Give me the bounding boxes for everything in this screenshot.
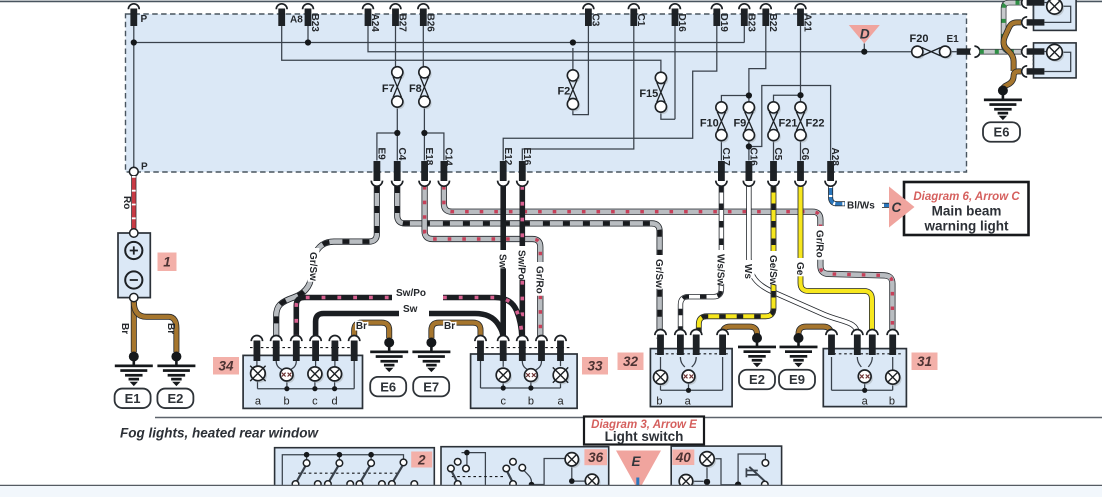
svg-text:c: c xyxy=(500,396,506,408)
battery component 1 xyxy=(118,229,150,302)
svg-text:C5: C5 xyxy=(772,148,783,161)
terminal of 33 at x=522.3 xyxy=(517,336,528,362)
junction 31a on bus xyxy=(862,388,867,393)
ground dot E2 right xyxy=(752,333,762,343)
arrow C triangle xyxy=(889,187,915,228)
wire: D19 to E12 xyxy=(503,26,717,161)
svg-text:B26: B26 xyxy=(424,14,435,33)
svg-text:A8: A8 xyxy=(290,15,303,26)
junction rail A at P xyxy=(131,39,137,45)
wire: second B23 drop to rail A xyxy=(743,26,745,43)
junction 34d on bus xyxy=(332,386,337,391)
svg-text:F9: F9 xyxy=(733,117,746,129)
wire: B27 to fuse F7 xyxy=(395,26,397,67)
wire: F10 output to C17 xyxy=(720,141,722,161)
junction 32a on bus xyxy=(686,388,691,393)
blue internal-connection box xyxy=(126,14,967,172)
svg-text:Br: Br xyxy=(444,321,455,332)
wire: A21 to fuse F22 xyxy=(800,26,802,102)
bulb 33c xyxy=(496,368,512,384)
svg-text:E2: E2 xyxy=(749,372,765,387)
fuse F8 xyxy=(409,67,432,109)
fuse F2 xyxy=(557,70,580,112)
terminal P xyxy=(128,4,139,26)
svg-text:Br: Br xyxy=(119,323,130,334)
wire: F9 output to C16 xyxy=(748,141,750,161)
ground dot E9 right xyxy=(794,333,804,343)
bulb 34d xyxy=(328,367,344,383)
ground dot E1 xyxy=(129,352,139,362)
label Gr/Ro (E18 wire) xyxy=(534,262,546,296)
bulb 33a (headlight) xyxy=(553,367,570,384)
svg-text:Diagram 6, Arrow C: Diagram 6, Arrow C xyxy=(913,191,1020,203)
label Ws (C16 wire) xyxy=(743,260,755,278)
svg-text:F20: F20 xyxy=(910,33,929,45)
junction dots in relay unit 40 xyxy=(704,479,710,485)
terminal E12 xyxy=(498,148,513,187)
bulb lower side light xyxy=(1047,44,1064,62)
label Ws/Sw (C17 wire) xyxy=(715,250,727,284)
section separator line xyxy=(155,417,1102,419)
wire: F9 output bracket to A28 xyxy=(749,86,831,161)
junction dots on feed line of switch unit 2 xyxy=(304,452,310,458)
svg-text:E9: E9 xyxy=(789,372,805,387)
relay contacts in 40 xyxy=(762,460,769,467)
wire: F22 output to C6 xyxy=(800,141,802,161)
svg-text:b: b xyxy=(889,396,895,408)
svg-text:F22: F22 xyxy=(806,117,825,129)
svg-text:D16: D16 xyxy=(676,14,687,33)
junction 34b on bus xyxy=(284,386,289,391)
bulb in 36 (lower) xyxy=(585,474,600,489)
svg-text:C17: C17 xyxy=(720,148,731,167)
svg-text:a: a xyxy=(862,396,869,408)
svg-text:Br: Br xyxy=(165,323,176,334)
label Gr/Sw (C4 wire) xyxy=(654,255,666,289)
terminal C1 xyxy=(628,4,645,27)
terminal of upper side light (bottom) xyxy=(1022,17,1045,28)
svg-text:a: a xyxy=(557,396,564,408)
relay unit 40 xyxy=(671,446,781,488)
terminal of 33 at x=541.5 xyxy=(536,336,547,362)
terminal of 32 at x=680.4 xyxy=(675,330,686,356)
terminal of 33 at x=480.5 xyxy=(475,336,486,362)
svg-text:C: C xyxy=(892,200,902,215)
bulb in 40 (lower) xyxy=(679,475,694,491)
wire Gr/Gn: branch to upper side light xyxy=(1004,3,1021,51)
wire: terminal P down to node P xyxy=(133,26,135,167)
junction rail A at B23 xyxy=(305,39,311,45)
wire Sw: branch to headlight 34 terminal 4 (left of label) xyxy=(316,314,399,339)
ground label E6 top right xyxy=(983,122,1020,142)
svg-text:B27: B27 xyxy=(397,14,408,33)
svg-text:33: 33 xyxy=(587,359,603,374)
svg-text:E12: E12 xyxy=(502,148,513,166)
terminal of 32 at x=722.6 xyxy=(717,330,728,356)
fuse F10 xyxy=(700,102,729,143)
wire: F9 feed branch to fuse F10 xyxy=(721,96,749,102)
bulb 31b xyxy=(886,370,902,386)
junction rail B at triangle D xyxy=(861,49,867,55)
svg-text:E2: E2 xyxy=(167,391,183,406)
label 31 xyxy=(912,353,938,371)
ground symbol E1 xyxy=(115,356,153,387)
terminal of 33 at x=503.2 xyxy=(498,336,509,362)
svg-text:F21: F21 xyxy=(779,117,798,129)
terminal C17 xyxy=(716,148,731,187)
terminal D16 xyxy=(670,4,687,32)
terminal A24 xyxy=(363,4,380,32)
terminal A28 xyxy=(825,148,840,187)
svg-text:E: E xyxy=(631,454,641,469)
label 40 xyxy=(672,450,694,466)
ground dot E2 left xyxy=(171,352,181,362)
terminal C3 xyxy=(583,4,600,27)
svg-text:Ge: Ge xyxy=(794,262,805,276)
wire Ws/Sw: C17 to rear light 32 terminal 2 xyxy=(681,186,722,333)
wire Br: headlight 34 to ground E6 xyxy=(354,323,389,339)
svg-text:Ws/Sw: Ws/Sw xyxy=(715,254,726,286)
svg-text:E7: E7 xyxy=(423,379,439,394)
wire: C1 to E16 xyxy=(522,26,634,161)
terminal of 32 at x=696.2 xyxy=(691,330,702,356)
label Gr/Ro (C14 wire) xyxy=(814,226,826,260)
svg-text:Sw: Sw xyxy=(403,304,418,315)
label Sw (E12 wire) xyxy=(497,250,509,268)
svg-text:Gr/Ro: Gr/Ro xyxy=(814,230,825,258)
svg-text:D: D xyxy=(860,27,870,42)
wire Br: upper side light to ground xyxy=(1004,22,1021,71)
terminal A8 xyxy=(276,4,287,26)
terminal E18 xyxy=(419,148,434,187)
svg-text:Sw/Po: Sw/Po xyxy=(516,250,527,280)
terminal C14 xyxy=(438,148,453,187)
wire Br: lower side light to ground xyxy=(1003,71,1021,90)
wire: B22 to fuse F9 feed xyxy=(749,26,766,102)
terminal E1 bar xyxy=(957,46,980,57)
bulb in 40 (upper) xyxy=(700,452,716,468)
bulb upper side light xyxy=(1047,0,1064,16)
ground label E7 xyxy=(413,377,449,397)
ground dot E6 xyxy=(384,338,394,348)
label Ge (C6 wire) xyxy=(794,258,806,276)
terminal B26 xyxy=(418,4,435,32)
svg-text:B22: B22 xyxy=(767,14,778,33)
svg-text:a: a xyxy=(255,396,262,408)
svg-text:A24: A24 xyxy=(369,14,380,33)
fuse F15 xyxy=(639,72,668,114)
bulb 34a (headlight) xyxy=(250,366,267,383)
wire Gr/Ro: C14 to rear light 31 terminal 4 xyxy=(444,186,893,336)
junction F7 output xyxy=(394,130,400,136)
svg-text:Sw: Sw xyxy=(497,254,508,269)
svg-text:Bl/Ws: Bl/Ws xyxy=(847,201,875,212)
svg-text:F10: F10 xyxy=(700,117,719,129)
wire Ge/Sw: C5 to rear light 32 terminal 3 xyxy=(699,186,774,333)
terminal of lower side light (top) xyxy=(1022,46,1045,57)
svg-text:E9: E9 xyxy=(376,148,387,161)
label Sw/Po (E16 wire) xyxy=(516,246,528,280)
junction F8 output xyxy=(421,130,427,136)
wire Br: battery to ground E2 xyxy=(134,302,177,352)
bulb 33b (twin filament) xyxy=(525,369,540,384)
svg-text:31: 31 xyxy=(917,354,932,369)
terminal of 31 at x=857.3 xyxy=(852,330,863,356)
terminal of 34 at x=354.2 xyxy=(349,336,360,362)
bulb in 36 (upper) xyxy=(565,453,580,468)
terminal of 31 at x=892.7 xyxy=(887,330,898,356)
terminal B27 xyxy=(390,4,407,32)
node P xyxy=(129,167,138,176)
wire: F20 to terminal E1 xyxy=(951,51,957,53)
wire Gr/Sw: E9 to headlight 34 terminal 2 xyxy=(276,186,377,339)
terminal of 31 at x=831.5 xyxy=(826,330,837,356)
svg-text:Sw/Po: Sw/Po xyxy=(396,288,426,299)
rear light unit 31 xyxy=(823,349,906,407)
switch unit 36 xyxy=(441,447,609,488)
junction F9 feed xyxy=(746,92,752,98)
svg-text:B23: B23 xyxy=(309,14,320,33)
wire Br: ground E9 to rear light 31 xyxy=(799,327,831,338)
svg-text:a: a xyxy=(685,396,692,408)
wire Sw/Po: branch right of label into terminal 3 xyxy=(443,298,522,339)
terminal of 32 at x=660.5 xyxy=(655,330,666,356)
terminal A21 xyxy=(795,4,812,32)
ground symbol E2 right xyxy=(738,337,776,368)
wire: F21 output to C5 xyxy=(773,141,775,161)
side light lamp unit (top right, lower) xyxy=(1033,43,1076,78)
bulb 34c xyxy=(308,367,324,383)
svg-text:C6: C6 xyxy=(799,148,810,161)
terminal C6 xyxy=(795,148,810,187)
wire Gr/Ro: E18 to headlight 33 terminal 4 xyxy=(425,186,541,339)
label 32 xyxy=(618,353,644,371)
wire: B26 to fuse F8 xyxy=(422,26,424,67)
svg-text:E6: E6 xyxy=(994,125,1010,140)
wire Ge: C6 to rear light 31 terminal 3 xyxy=(801,186,872,333)
wire Sw/Po: E16 down to headlight 33 terminal 3 xyxy=(519,186,525,339)
svg-text:d: d xyxy=(332,396,338,408)
label Ge/Sw (C5 wire) xyxy=(767,251,779,285)
svg-text:A28: A28 xyxy=(829,148,840,167)
wire Sw: branch right of label into terminal 2 xyxy=(429,314,503,339)
headlight unit 34 xyxy=(243,355,362,408)
svg-text:E1: E1 xyxy=(947,34,960,45)
svg-text:E16: E16 xyxy=(521,148,532,166)
headlight unit 33 xyxy=(471,354,577,408)
terminal of lower side light (bottom) xyxy=(1022,66,1045,77)
svg-text:B23: B23 xyxy=(745,14,756,33)
bottom frame xyxy=(0,486,1102,497)
ground symbol E9 right xyxy=(780,337,818,368)
bulb 32a (twin filament) xyxy=(682,370,697,385)
svg-text:Gr/Sw: Gr/Sw xyxy=(307,252,318,281)
junction dots in switch unit 36 xyxy=(464,450,470,456)
svg-text:c: c xyxy=(312,396,318,408)
side light lamp unit (top right, upper) xyxy=(1033,0,1076,30)
svg-text:b: b xyxy=(656,396,662,408)
wire Ws: C16 to rear light 31 terminal 2 xyxy=(749,186,857,334)
wire: A8 rail to fuse F15 xyxy=(282,26,661,72)
terminal C5 xyxy=(768,148,783,187)
wire Sw: E12 down to headlight 33 terminal 2 xyxy=(500,186,506,339)
junction F9 output xyxy=(746,143,752,149)
svg-text:F2: F2 xyxy=(557,86,570,98)
label Gr/Sw (E9 wire) xyxy=(308,248,320,282)
junction 33b on bus xyxy=(528,385,533,390)
fuse F21 xyxy=(768,102,798,143)
svg-text:Ws: Ws xyxy=(742,264,753,279)
terminal of upper side light (top) xyxy=(1022,0,1045,8)
svg-text:34: 34 xyxy=(218,359,234,374)
ground dot E7 xyxy=(426,338,436,348)
wire: rail A (P/B23/F2) xyxy=(134,42,745,44)
terminal of 33 at x=560.5 xyxy=(555,336,566,362)
svg-text:F7: F7 xyxy=(382,83,395,95)
wire: rail B from A24 to fuse F20 xyxy=(368,26,912,52)
junction 34c on bus xyxy=(312,386,317,391)
svg-text:F8: F8 xyxy=(409,83,422,95)
svg-text:E6: E6 xyxy=(380,379,396,394)
terminal D19 xyxy=(711,4,728,32)
label 36 xyxy=(584,449,607,465)
ground symbol E7 xyxy=(412,342,450,373)
terminal E9 xyxy=(371,148,386,187)
wire Bl/Ws stub at arrow C xyxy=(882,203,890,208)
fuse F7 xyxy=(382,67,405,109)
svg-text:2: 2 xyxy=(417,452,426,467)
ground symbol E2 left xyxy=(157,356,195,387)
terminal B22 xyxy=(760,4,777,32)
reference box: Diagram 3 Arrow E xyxy=(584,417,704,445)
svg-text:C16: C16 xyxy=(748,148,759,167)
terminal of 34 at x=334.9 xyxy=(329,336,340,362)
terminal of 34 at x=315.6 xyxy=(310,336,321,362)
fuse F22 xyxy=(795,102,825,143)
wire Ro: node P to battery xyxy=(131,176,136,229)
svg-text:Gr/Sw: Gr/Sw xyxy=(653,259,664,288)
bulb 34b (twin filament) xyxy=(280,368,295,383)
wire: A21 branch to fuse F21 xyxy=(774,95,801,102)
svg-text:warning light: warning light xyxy=(924,219,1009,234)
wire: F2 output to C3 xyxy=(573,26,589,115)
label 2 xyxy=(411,452,432,468)
junction rail A at F2 xyxy=(570,39,576,45)
fuse F9 xyxy=(733,102,756,143)
svg-text:E18: E18 xyxy=(423,148,434,166)
rear light unit 32 xyxy=(650,349,732,407)
wire Gr/Gn: E1 to lower side light xyxy=(980,49,1021,55)
ground dot E6 top right xyxy=(998,86,1008,96)
svg-text:Main beam: Main beam xyxy=(932,204,1002,219)
svg-text:Gr/Ro: Gr/Ro xyxy=(534,266,545,294)
svg-text:1: 1 xyxy=(163,255,171,270)
svg-text:A21: A21 xyxy=(802,14,813,33)
junction F22 feed xyxy=(797,92,803,98)
svg-text:b: b xyxy=(528,396,534,408)
svg-text:P: P xyxy=(141,14,148,25)
svg-text:Ge/Sw: Ge/Sw xyxy=(767,255,778,286)
svg-text:Br: Br xyxy=(356,321,367,332)
switch unit 2 xyxy=(275,448,435,488)
terminal C4 xyxy=(392,148,407,187)
label 34 xyxy=(213,357,239,375)
svg-text:Light switch: Light switch xyxy=(605,429,684,444)
svg-text:D19: D19 xyxy=(718,14,729,33)
wire: B23 drop to rail A xyxy=(307,26,309,43)
wire Bl/Ws: A28 to arrow C xyxy=(831,186,845,204)
svg-text:32: 32 xyxy=(623,354,639,369)
terminal C16 xyxy=(743,148,758,187)
ground label E2 right xyxy=(739,370,775,390)
fuse F20 xyxy=(912,46,953,59)
terminal B23 xyxy=(303,4,320,32)
svg-text:b: b xyxy=(284,396,290,408)
ground symbol E6 xyxy=(370,342,408,373)
wire: F7 output to C4 and E9 xyxy=(377,107,397,160)
svg-text:40: 40 xyxy=(675,450,692,465)
ground label E9 right xyxy=(779,370,815,390)
wire: triangle D stem xyxy=(863,44,865,52)
ground symbol E6 top right xyxy=(984,90,1022,121)
terminal of 34 at x=256.9 xyxy=(251,336,262,362)
terminal B23 (second) xyxy=(739,4,756,32)
label 1 xyxy=(158,253,177,272)
connection triangle D xyxy=(849,25,880,44)
svg-text:C14: C14 xyxy=(443,148,454,167)
junction 33c on bus xyxy=(501,385,506,390)
label 33 xyxy=(582,357,608,375)
wire: F15 output to D16 xyxy=(661,26,675,119)
wire Sw/Po: branch to headlight 34 terminal 3 (left of label) xyxy=(296,298,392,339)
bulb 31a (twin filament) xyxy=(858,370,873,385)
svg-text:P: P xyxy=(141,162,148,173)
terminal E16 xyxy=(517,148,532,187)
svg-text:F15: F15 xyxy=(639,88,658,100)
ground label E6 xyxy=(370,377,406,397)
wire Gr/Sw: C4 to rear light 32 terminal b xyxy=(397,186,659,339)
svg-text:C3: C3 xyxy=(589,14,600,27)
wire Br: ground E7 to headlight 33 xyxy=(431,323,480,339)
ground label E1 xyxy=(115,389,151,409)
reference box: Diagram 6 Arrow C xyxy=(904,182,1029,235)
top frame line xyxy=(0,0,1102,2)
svg-text:36: 36 xyxy=(588,450,604,465)
wire Br: battery to ground E1 xyxy=(131,302,137,352)
svg-text:Ro: Ro xyxy=(121,196,132,209)
svg-text:Fog lights, heated rear window: Fog lights, heated rear window xyxy=(120,426,320,441)
bulb 32b xyxy=(654,370,670,386)
ground label E2 left xyxy=(157,389,193,409)
terminal of 34 at x=276.2 xyxy=(271,336,282,362)
terminal of 31 at x=872.3 xyxy=(867,330,878,356)
svg-text:C1: C1 xyxy=(635,14,646,27)
svg-text:E1: E1 xyxy=(125,391,141,406)
wire: F8 output to E18 and C14 xyxy=(424,107,444,160)
wire Br: rear light 32 to ground E2 xyxy=(723,327,757,338)
arrow E triangle xyxy=(616,451,661,492)
wire: rail A drop to fuse F2 xyxy=(572,48,574,70)
terminal of 34 at x=296.3 xyxy=(291,336,302,362)
svg-text:C4: C4 xyxy=(396,148,407,161)
